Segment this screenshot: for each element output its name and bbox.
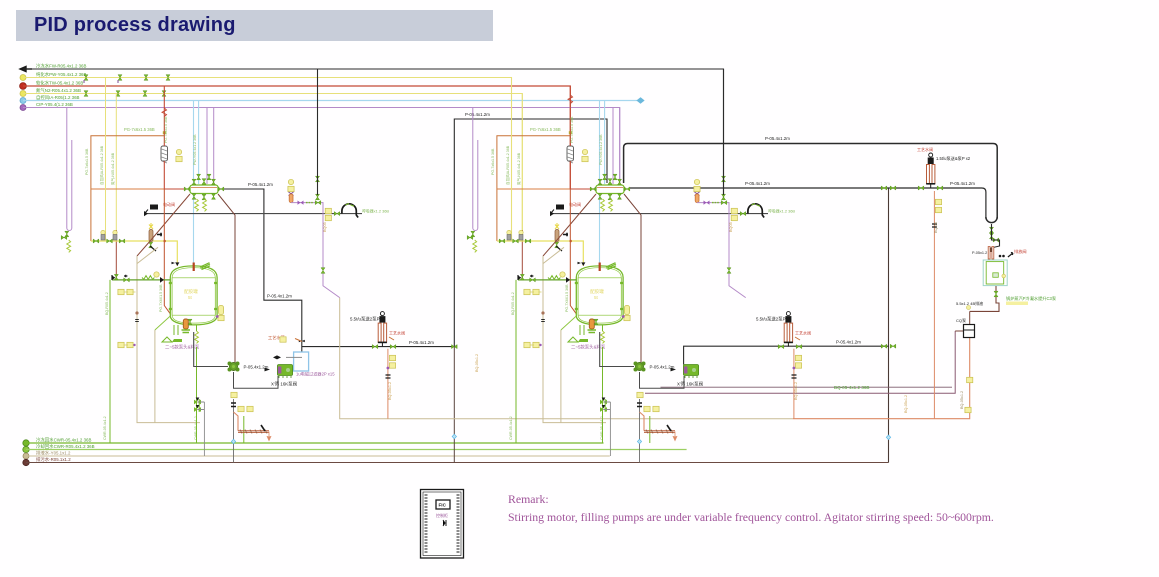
feed line arrow bbox=[112, 276, 115, 280]
flex hose under purple U bbox=[67, 240, 71, 252]
tiny glyphs on headers near left bbox=[84, 75, 170, 97]
springs below manifold bbox=[195, 199, 199, 211]
remark text bbox=[508, 491, 994, 526]
yellow supply header 2 bbox=[20, 91, 26, 97]
svg-text:自控风IA-R05(1.2 36B: 自控风IA-R05(1.2 36B bbox=[36, 94, 80, 101]
transfer riser drain down to blowdown header bbox=[453, 347, 455, 463]
svg-text:CQ泵: CQ泵 bbox=[956, 318, 966, 323]
instrument stack above manifold bbox=[176, 149, 181, 154]
transfer line tank1 pump to tank2 manifold bbox=[302, 119, 607, 347]
purple U loop bbox=[67, 108, 72, 231]
valve at tank bottom bbox=[188, 319, 192, 325]
left bottom sampling cluster upper bbox=[118, 289, 124, 294]
transfer line tank2 pump to riser bbox=[684, 346, 889, 364]
filling metering pump bbox=[378, 312, 387, 347]
valves around filling pump bbox=[372, 345, 378, 349]
svg-text:BQ-05x1.2: BQ-05x1.2 bbox=[904, 395, 908, 413]
green return header 2 bbox=[23, 446, 29, 452]
manifold top valves bbox=[192, 179, 196, 185]
purple drop below bbox=[323, 214, 340, 298]
level instrument right bbox=[219, 306, 224, 315]
svg-text:氮气-N05.4x1.2 36B: 氮气-N05.4x1.2 36B bbox=[110, 152, 115, 185]
red header zigzags bbox=[568, 95, 572, 104]
steam trap capsule bbox=[289, 194, 293, 203]
green line down to bottom header bbox=[109, 280, 111, 443]
instruments on filling drop bbox=[389, 355, 395, 360]
marks on tan leg bbox=[135, 311, 138, 314]
red supply header bbox=[20, 83, 27, 90]
bottom-entry agitator drive bbox=[183, 319, 188, 329]
condensate trap assembly bbox=[288, 179, 293, 184]
svg-text:1.5t/u泵送&泵P x2: 1.5t/u泵送&泵P x2 bbox=[936, 155, 971, 162]
svg-text:CIP-Y05.4(1.2 36B: CIP-Y05.4(1.2 36B bbox=[36, 102, 73, 107]
svg-text:BQ-05x1.2: BQ-05x1.2 bbox=[388, 382, 392, 400]
svg-text:5.5t/u泵送2泵P x5: 5.5t/u泵送2泵P x5 bbox=[350, 316, 386, 323]
green return header 1 bbox=[23, 440, 29, 446]
long gray line bbox=[144, 213, 362, 215]
tan drain header bbox=[23, 453, 29, 459]
big feed valve assembly bbox=[149, 223, 153, 229]
black valve on receiver drop bbox=[299, 340, 305, 342]
instrument under pump bbox=[231, 392, 237, 397]
svg-text:BQ05: BQ05 bbox=[323, 222, 327, 232]
svg-text:锅炉蒸汽P冷凝水提升C3泵: 锅炉蒸汽P冷凝水提升C3泵 bbox=[1006, 295, 1056, 302]
svg-text:氮气N2-R05.4x1.2 36B: 氮气N2-R05.4x1.2 36B bbox=[36, 87, 81, 94]
svg-text:纯化水PW-Y05.4x1.2 36B: 纯化水PW-Y05.4x1.2 36B bbox=[36, 71, 87, 78]
tank system 2 (mirror copy shifted +406px) bbox=[467, 69, 811, 463]
tank vessel bbox=[170, 266, 217, 325]
valve pair at riser top junction bbox=[881, 186, 887, 190]
tank flanges bbox=[169, 283, 217, 309]
pump bbox=[228, 362, 240, 372]
flex hose on tank feed bbox=[142, 276, 154, 280]
cyan diamond junction bbox=[231, 439, 235, 443]
vertical line labels bbox=[85, 116, 198, 440]
svg-text:P-05.4x1.2m: P-05.4x1.2m bbox=[836, 340, 861, 345]
pressure regulator IA bbox=[101, 230, 105, 240]
svg-text:二~5款泵头&料泵: 二~5款泵头&料泵 bbox=[165, 344, 200, 351]
red feed into manifold bbox=[164, 86, 190, 189]
black supply header bbox=[23, 69, 724, 199]
inline unit (magnetic pump) bbox=[277, 365, 292, 376]
svg-text:冷冻回水CWR-05.4x1.2 36B: 冷冻回水CWR-05.4x1.2 36B bbox=[36, 437, 91, 444]
valve on transfer riser junction bbox=[452, 345, 458, 349]
top nozzle arrow bbox=[175, 262, 179, 266]
valves under purple U bbox=[65, 231, 69, 237]
maroon drain header bbox=[23, 459, 29, 465]
svg-text:P-05x1.2: P-05x1.2 bbox=[972, 251, 987, 255]
svg-text:控制柜: 控制柜 bbox=[436, 512, 448, 518]
valve at maroon drop end bbox=[114, 274, 118, 280]
svg-text:BQ-05-4x1.2 36B: BQ-05-4x1.2 36B bbox=[834, 385, 870, 390]
cyan diamond on riser drain bbox=[452, 434, 456, 439]
svg-text:BQ-05x1.2: BQ-05x1.2 bbox=[960, 391, 964, 409]
second CIP return line bbox=[661, 386, 953, 388]
svg-text:软化水TW-05.4x1.2 36B: 软化水TW-05.4x1.2 36B bbox=[36, 80, 83, 87]
loop seal valves bbox=[990, 227, 994, 233]
filling pump 3 on long line bbox=[926, 153, 935, 188]
left bottom sampling cluster lower bbox=[118, 342, 124, 347]
instrument boxes on long line bbox=[325, 208, 331, 213]
maroon into tank left bbox=[164, 189, 170, 314]
purple drops bbox=[206, 108, 208, 185]
tan frame under tank bbox=[137, 256, 200, 423]
svg-text:P-05.4x1.2m: P-05.4x1.2m bbox=[745, 181, 770, 186]
svg-text:冷冻水FW-R05.4x1.2 36B: 冷冻水FW-R05.4x1.2 36B bbox=[36, 63, 86, 70]
red line filter capsule bbox=[161, 146, 168, 161]
tan collection line bbox=[340, 298, 793, 419]
svg-text:配胶罐: 配胶罐 bbox=[184, 288, 198, 295]
black drop from top header bbox=[317, 69, 319, 195]
title bar bbox=[16, 10, 493, 41]
valves around filling pump 3 bbox=[918, 186, 924, 190]
svg-text:排污水-R05.1x1.2: 排污水-R05.1x1.2 bbox=[36, 456, 71, 463]
svg-text:排液水-Y05.1x1.2: 排液水-Y05.1x1.2 bbox=[36, 450, 71, 457]
valve on purple drop bbox=[321, 268, 325, 274]
svg-text:PG-7x6x1.5 36B: PG-7x6x1.5 36B bbox=[164, 116, 168, 143]
svg-text:P-05.4x1.2m: P-05.4x1.2m bbox=[267, 294, 292, 299]
svg-text:呼吸器x1.2 36B: 呼吸器x1.2 36B bbox=[362, 209, 389, 214]
cyan junction diamond on riser bbox=[886, 435, 890, 440]
purple CIP return line bbox=[645, 331, 955, 393]
svg-text:PW-Y05.4x1.2 36B: PW-Y05.4x1.2 36B bbox=[193, 134, 197, 165]
condensate purple line bbox=[291, 203, 323, 214]
gooseneck vent bbox=[342, 204, 358, 218]
valve before gooseneck bbox=[334, 212, 340, 216]
工艺水 stub sys1 bbox=[295, 339, 302, 342]
valves on feed header bbox=[93, 239, 99, 243]
tank2 manifold long discharge line bbox=[630, 188, 986, 219]
svg-text:BQ-05: BQ-05 bbox=[934, 222, 938, 233]
svg-text:X'筛 16K泵阀: X'筛 16K泵阀 bbox=[271, 381, 297, 388]
maroon diagonal from manifold to tan frame bbox=[137, 194, 190, 256]
filling pump 3 discharge drop bbox=[933, 191, 935, 419]
motor glyph left of manifold bbox=[145, 205, 158, 214]
olive tag at orange elbow corner bbox=[163, 131, 166, 134]
svg-text:排放阀: 排放阀 bbox=[1014, 248, 1027, 255]
cyan supply header bbox=[20, 98, 26, 104]
svg-text:FIC: FIC bbox=[439, 503, 447, 508]
tank left feed line bbox=[112, 279, 170, 281]
bolt dots bbox=[999, 255, 1002, 258]
discharge piping to unit bbox=[234, 372, 279, 388]
header labels bbox=[36, 63, 87, 108]
svg-text:PG-7X6X1.5 36B: PG-7X6X1.5 36B bbox=[159, 284, 163, 312]
filler sparger bbox=[234, 412, 239, 431]
small transfer pump above vessel bbox=[988, 247, 994, 259]
valves at black drop end bbox=[315, 201, 321, 205]
maroon right of tank bbox=[218, 194, 235, 364]
svg-text:自控风IA-R05.4x1.2 36B: 自控风IA-R05.4x1.2 36B bbox=[99, 145, 104, 185]
feed header yellow bbox=[91, 241, 177, 266]
orange elbow to feed header bbox=[91, 136, 164, 241]
svg-text:冷却回水CWR-R05.4x1.2 36B: 冷却回水CWR-R05.4x1.2 36B bbox=[36, 443, 95, 450]
yellow supply header 1 bbox=[20, 75, 26, 81]
header arrow black bbox=[20, 66, 32, 71]
svg-text:1u电磁过滤器2P x15: 1u电磁过滤器2P x15 bbox=[296, 371, 335, 378]
svg-text:P-05.4x1.2m: P-05.4x1.2m bbox=[409, 340, 434, 345]
upper nozzle valves bbox=[197, 174, 201, 180]
purple valve cross bbox=[289, 192, 294, 196]
instruments on condensate drop bbox=[965, 407, 971, 412]
valve on tank feed line bbox=[124, 278, 130, 282]
svg-text:P-05.4x1.2m: P-05.4x1.2m bbox=[465, 112, 490, 117]
receiver blue box bbox=[294, 352, 309, 371]
svg-text:P-05.4x1.2m: P-05.4x1.2m bbox=[765, 136, 790, 141]
manifold1 right vent to receiver bbox=[220, 189, 302, 352]
cyan drops bbox=[193, 101, 195, 265]
svg-text:BQ-R05.4x1.2: BQ-R05.4x1.2 bbox=[105, 292, 109, 315]
vapor line tank2 to loop seal bbox=[624, 144, 998, 219]
tank bottom-left diagonal pipe bbox=[155, 316, 170, 330]
yellow drop 1 bbox=[105, 78, 107, 242]
purple supply header bbox=[20, 105, 26, 111]
pressure regulator N2 bbox=[113, 230, 117, 240]
red branch to tank left line bbox=[115, 94, 117, 242]
condensate receiver vessel bbox=[983, 260, 1007, 286]
svg-text:5.5x1.2 4B排液: 5.5x1.2 4B排液 bbox=[956, 300, 983, 306]
agitator motor on dome bbox=[200, 263, 210, 270]
valve pair at riser bottom junction bbox=[881, 344, 887, 348]
svg-text:PG-7x6x1.5 36B: PG-7x6x1.5 36B bbox=[124, 127, 155, 132]
instrument pair on drain bbox=[238, 406, 244, 411]
short green return drop bbox=[243, 416, 245, 443]
tank stand / head pump bbox=[172, 339, 182, 342]
vessel discharge to pump bbox=[970, 286, 999, 311]
flow arrow on discharge bbox=[265, 368, 271, 372]
svg-text:CWR-05.4x1.2: CWR-05.4x1.2 bbox=[103, 416, 107, 440]
manifold side valves bbox=[184, 187, 190, 191]
tank discharge spring down bbox=[196, 325, 198, 331]
svg-text:工艺水阀: 工艺水阀 bbox=[917, 146, 933, 152]
salmon collection line right bbox=[793, 338, 970, 419]
svg-text:工艺水阀: 工艺水阀 bbox=[389, 330, 405, 336]
svg-text:BQ-05x1.2: BQ-05x1.2 bbox=[475, 354, 479, 372]
manifold bbox=[190, 185, 218, 194]
svg-text:P-05.4x1.2m: P-05.4x1.2m bbox=[248, 182, 273, 187]
three-way valves bbox=[194, 398, 201, 405]
svg-text:P-05.4x1.2m: P-05.4x1.2m bbox=[950, 181, 975, 186]
gray drain drop bbox=[203, 402, 205, 456]
svg-text:PG-7x6x1.5 36B: PG-7x6x1.5 36B bbox=[85, 148, 89, 175]
instrument ball on feed bbox=[154, 272, 159, 277]
hand lever valve bbox=[1008, 253, 1013, 258]
condensate pump bbox=[955, 330, 963, 332]
purple bowtie valve bbox=[298, 201, 304, 205]
manifold bottom valves bbox=[192, 194, 196, 200]
discharge to pump bbox=[194, 332, 228, 367]
